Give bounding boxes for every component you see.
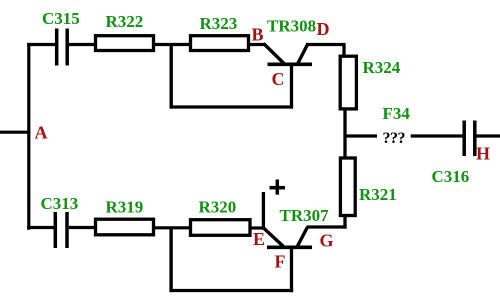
svg-text:B: B bbox=[252, 25, 264, 45]
svg-text:D: D bbox=[317, 19, 330, 39]
svg-text:F34: F34 bbox=[383, 104, 411, 123]
svg-text:R323: R323 bbox=[200, 14, 238, 33]
svg-text:R324: R324 bbox=[363, 58, 401, 77]
wire C315 to R322 bbox=[69, 43, 95, 46]
svg-text:R320: R320 bbox=[199, 198, 237, 217]
svg-text:E: E bbox=[253, 229, 265, 249]
capacitor C316 bbox=[464, 121, 475, 157]
svg-text:C316: C316 bbox=[432, 167, 470, 186]
svg-text:R321: R321 bbox=[359, 185, 397, 204]
svg-text:R319: R319 bbox=[106, 198, 144, 217]
resistor R321 bbox=[340, 158, 355, 216]
wire node D to R324 bbox=[306, 43, 346, 46]
wire R324 bottom lead to R321 top lead bbox=[343, 109, 346, 158]
resistor R323 bbox=[191, 36, 249, 51]
svg-text:C315: C315 bbox=[42, 9, 80, 28]
svg-text:C: C bbox=[272, 69, 285, 89]
svg-text:H: H bbox=[476, 144, 490, 164]
wire R324 top lead bbox=[342, 45, 345, 57]
wire left rail to C313 bbox=[27, 226, 55, 229]
svg-text:F: F bbox=[275, 252, 286, 272]
wire plus lead down to node E bbox=[262, 192, 265, 230]
wire top feedback loop bbox=[170, 105, 294, 108]
svg-text:A: A bbox=[35, 123, 48, 143]
wire R321 bottom lead bbox=[343, 216, 346, 229]
wire C316 to right edge bbox=[477, 134, 500, 137]
wire R319 to R320 bbox=[155, 226, 191, 229]
resistor R322 bbox=[96, 36, 154, 51]
svg-text:???: ??? bbox=[383, 130, 406, 147]
wire C313 to R319 bbox=[69, 226, 95, 229]
svg-text:C313: C313 bbox=[41, 194, 79, 213]
plus supply symbol bbox=[270, 180, 286, 195]
wire junction drop at bottom node bbox=[169, 228, 172, 292]
wire middle node to F34 bbox=[345, 134, 377, 137]
capacitor C315 bbox=[57, 29, 67, 66]
transistor TR307 bbox=[263, 227, 313, 292]
wire junction drop at top node bbox=[169, 45, 172, 109]
svg-text:G: G bbox=[320, 231, 334, 251]
resistor R319 bbox=[96, 219, 154, 235]
wire R320 to node E bbox=[250, 226, 265, 229]
wire bottom feedback loop bbox=[170, 289, 294, 292]
wire A stub from left edge bbox=[0, 131, 30, 134]
wire left rail bbox=[27, 43, 30, 230]
wire F34 to C316 bbox=[411, 134, 463, 137]
svg-text:R322: R322 bbox=[106, 12, 144, 31]
wire node G to R321 bbox=[307, 225, 347, 228]
wire R322 to R323 bbox=[155, 43, 191, 46]
svg-text:TR307: TR307 bbox=[280, 206, 330, 225]
wire R323 to node B bbox=[248, 43, 265, 46]
wire top rail to C315 bbox=[27, 43, 56, 46]
capacitor C313 bbox=[55, 212, 67, 248]
resistor R324 bbox=[340, 56, 356, 109]
svg-text:TR308: TR308 bbox=[267, 17, 316, 36]
resistor R320 bbox=[191, 220, 251, 236]
transistor TR308 bbox=[264, 44, 312, 109]
